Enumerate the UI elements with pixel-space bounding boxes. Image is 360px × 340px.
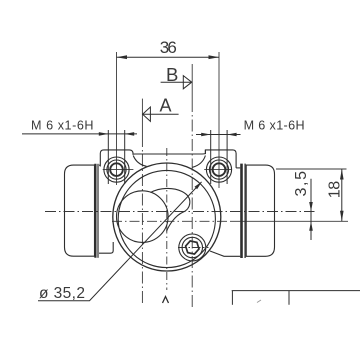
svg-text:ø 35,2: ø 35,2 <box>39 285 85 302</box>
svg-text:36: 36 <box>160 38 177 57</box>
svg-text:18: 18 <box>327 181 344 199</box>
svg-text:A: A <box>159 95 171 115</box>
svg-text:M 6 x1-6H: M 6 x1-6H <box>31 118 94 132</box>
svg-text:3,5: 3,5 <box>293 171 310 197</box>
svg-text:M 6 x1-6H: M 6 x1-6H <box>244 118 305 132</box>
svg-text:B: B <box>166 64 178 85</box>
